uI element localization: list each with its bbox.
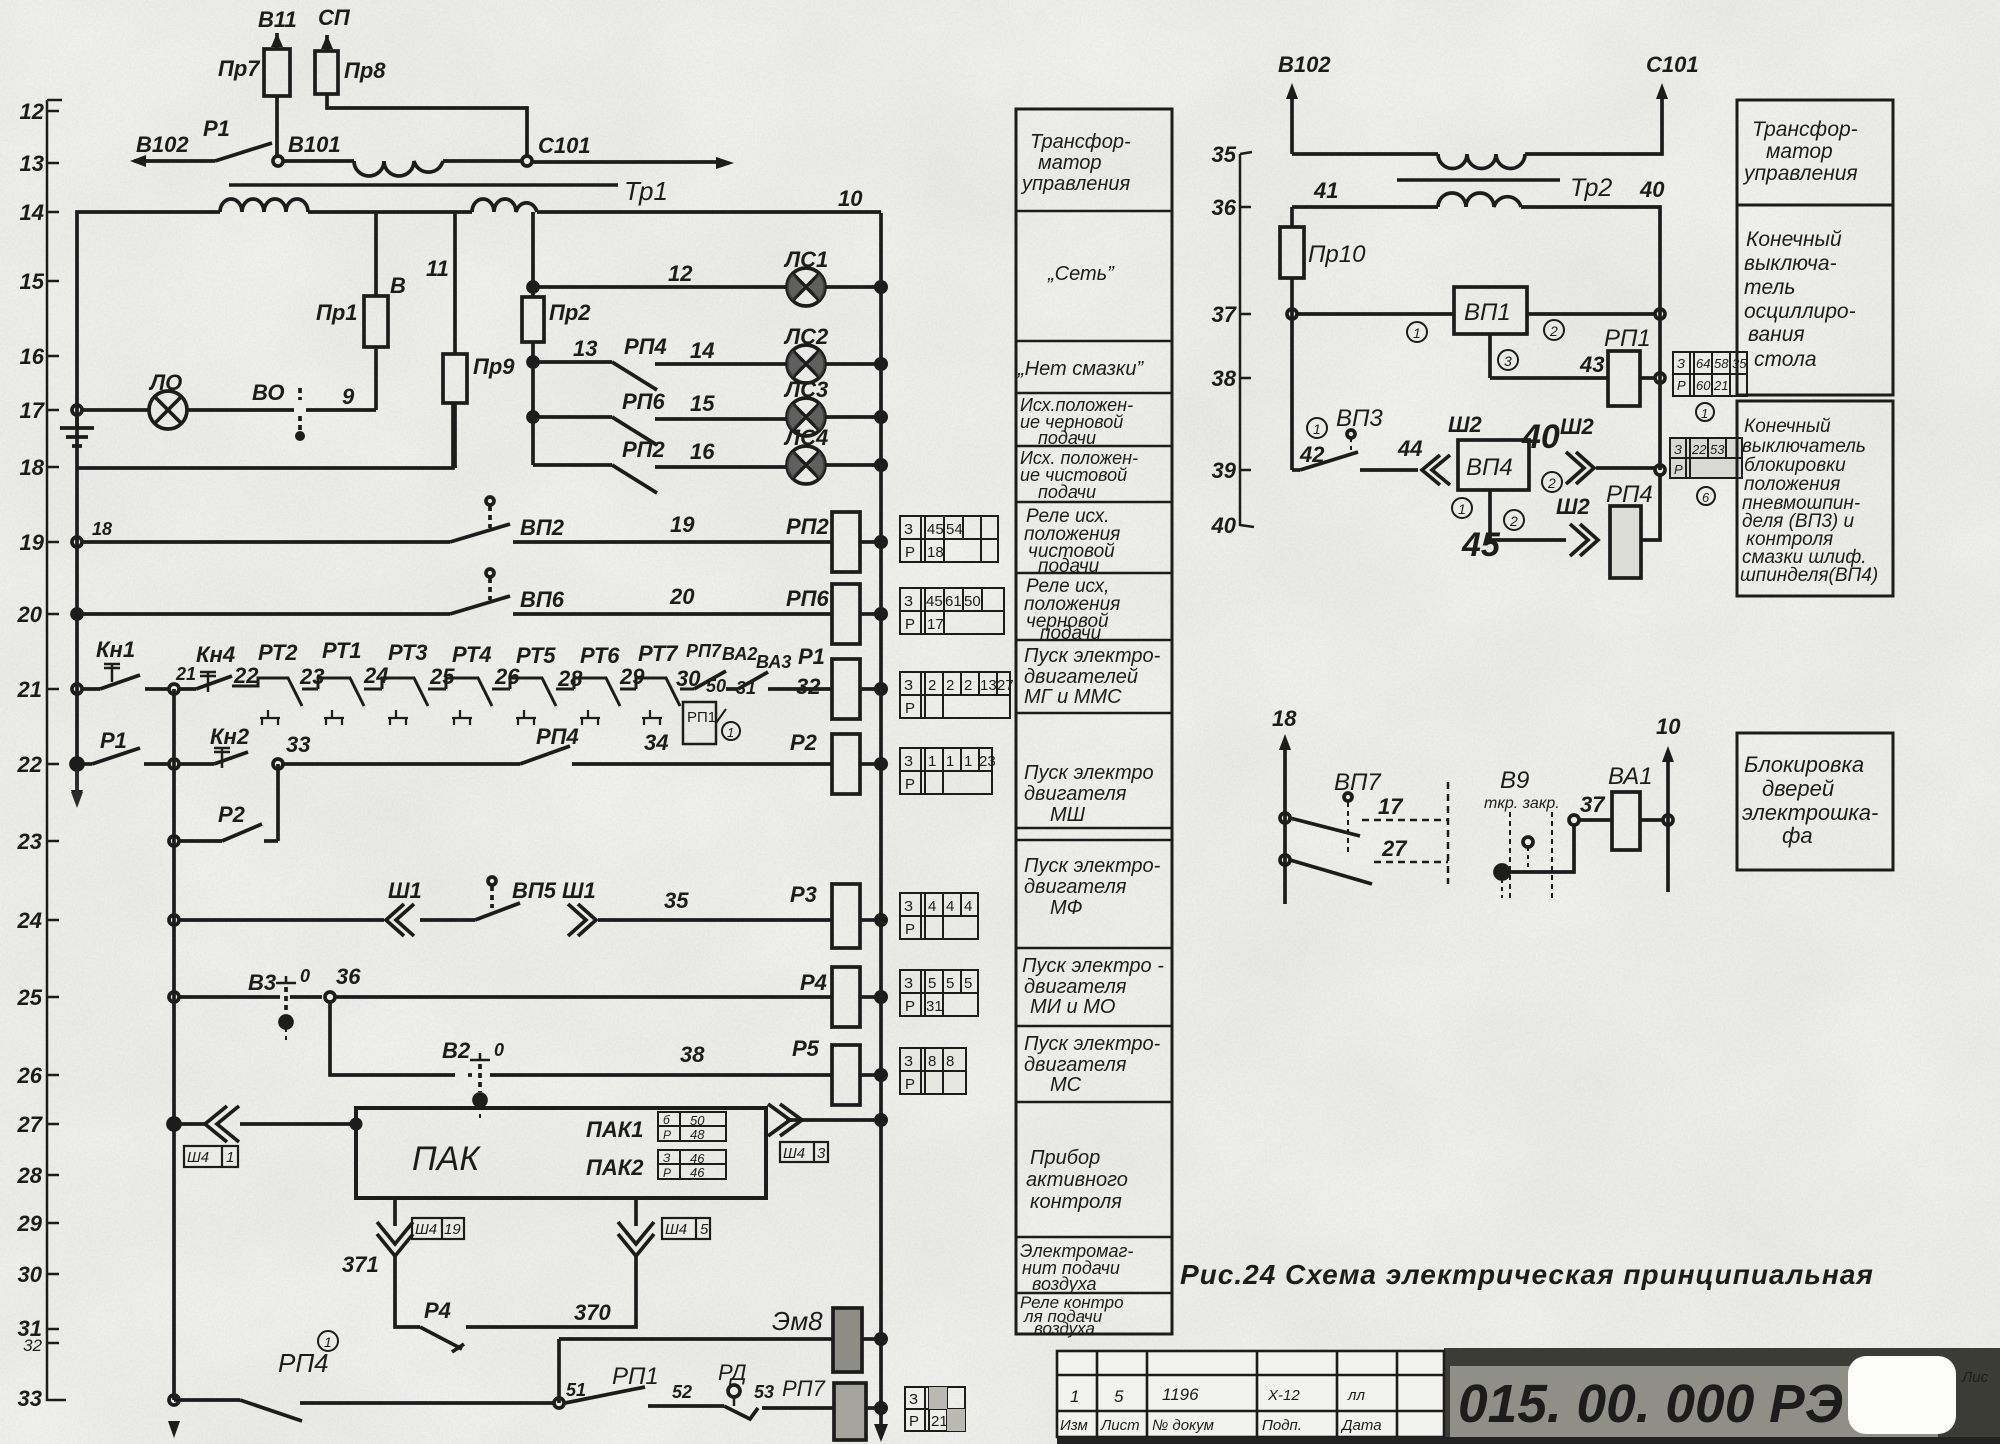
note box Блокировка дверей электрошкафа (1737, 733, 1893, 870)
svg-text:Трансфор-: Трансфор- (1030, 131, 1131, 153)
svg-text:РП6: РП6 (786, 586, 829, 611)
svg-text:В9: В9 (1500, 767, 1529, 794)
svg-text:53: 53 (754, 1382, 774, 1402)
thermal contact РТ4 net 25 (429, 642, 510, 725)
svg-text:двигателей: двигателей (1024, 666, 1138, 688)
svg-text:3: 3 (1504, 353, 1512, 369)
svg-text:положения: положения (1744, 474, 1840, 495)
svg-text:осциллиро-: осциллиро- (1744, 300, 1856, 323)
svg-text:Р4: Р4 (800, 970, 827, 995)
svg-text:15: 15 (690, 391, 715, 416)
svg-text:42: 42 (1299, 442, 1325, 467)
contact РП4 label (278, 1331, 338, 1378)
svg-text:Ш2: Ш2 (1556, 494, 1591, 519)
svg-text:46: 46 (690, 1151, 705, 1166)
fuse Пр1 tap (316, 212, 406, 410)
Тр2 secondary row 36, net 41 (1292, 178, 1438, 207)
svg-text:4: 4 (964, 898, 972, 915)
svg-text:Р: Р (905, 700, 915, 717)
node row 22 bus2 (169, 759, 179, 769)
left bus x77 rows 17-22 (71, 410, 83, 806)
svg-text:Р: Р (905, 776, 915, 793)
svg-text:двигателя: двигателя (1024, 1054, 1127, 1076)
legend row Реле исх. положения черновой подачи (1024, 576, 1120, 644)
wire В101 to Тр1 primary (283, 159, 354, 163)
pushbutton Кн1 (72, 637, 140, 694)
svg-text:вания: вания (1748, 323, 1805, 346)
relay coil Р1 (798, 644, 875, 719)
node В101 (273, 132, 341, 166)
title block stamp dark band (1444, 1348, 2000, 1444)
switch ВП3 (1292, 405, 1383, 470)
contact РП7 net 30 50 (676, 641, 726, 696)
switch В9 откр закр (1484, 767, 1560, 900)
lamp ЛО (82, 370, 187, 429)
svg-text:35: 35 (664, 888, 689, 913)
svg-text:Ш4: Ш4 (665, 1221, 687, 1238)
switch ВП7 upper contact net 17 (1280, 769, 1448, 856)
breaker coil ВА1 (1579, 763, 1662, 850)
svg-text:ВА3: ВА3 (756, 652, 791, 672)
svg-text:лл: лл (1347, 1387, 1365, 1404)
svg-text:4: 4 (946, 898, 954, 915)
svg-text:РТ5: РТ5 (516, 643, 556, 668)
label ПАК2 and table (586, 1150, 726, 1180)
svg-text:„Сеть”: „Сеть” (1047, 263, 1115, 285)
svg-text:Конечный: Конечный (1744, 416, 1831, 437)
svg-text:1: 1 (1413, 325, 1421, 341)
connector Ш2 left (1422, 412, 1483, 485)
svg-text:33: 33 (286, 732, 310, 757)
svg-text:Пуск электро: Пуск электро (1024, 762, 1154, 784)
contact table Р4 (900, 970, 978, 1016)
legend row Реле контроля подачи воздуха (1020, 1293, 1124, 1338)
svg-text:40: 40 (1521, 418, 1560, 456)
lamp ЛС2 (783, 324, 875, 383)
svg-text:21: 21 (1713, 378, 1728, 393)
arrow below node 22 (71, 770, 83, 808)
svg-text:2: 2 (964, 677, 972, 694)
node net 21 (145, 664, 196, 694)
svg-text:Кн1: Кн1 (96, 637, 135, 662)
svg-text:РП1: РП1 (612, 1363, 659, 1390)
svg-text:25: 25 (429, 664, 455, 689)
svg-text:45: 45 (1461, 526, 1501, 564)
wire primary to С101 (443, 159, 522, 163)
svg-text:Ш1: Ш1 (388, 878, 422, 903)
svg-text:ВА2: ВА2 (722, 644, 757, 664)
contact Р4 (420, 1298, 464, 1352)
relay coil Р3 (790, 882, 875, 948)
svg-text:41: 41 (1313, 178, 1338, 203)
svg-text:Р3: Р3 (790, 882, 817, 907)
svg-text:РП2: РП2 (786, 514, 829, 539)
wire row 14 to right bus, net 10 (537, 186, 881, 212)
svg-text:34: 34 (644, 730, 668, 755)
node row 38 right (1655, 314, 1665, 470)
svg-text:контроля: контроля (1030, 1191, 1122, 1213)
switch ВП6 (82, 569, 565, 614)
contact table Р2 (900, 748, 996, 794)
svg-text:РТ3: РТ3 (388, 640, 428, 665)
contact Р1 row 22 (71, 728, 169, 770)
wire net 52 (648, 1382, 724, 1406)
svg-text:64: 64 (1696, 356, 1710, 371)
junction dots right bus (874, 280, 888, 1415)
svg-text:371: 371 (342, 1252, 379, 1277)
fuse Пр9 (443, 354, 515, 468)
svg-text:РП1: РП1 (1604, 325, 1651, 352)
relay coil Р2 (790, 730, 875, 794)
fuse Пр8 (315, 35, 527, 156)
wire node36 drop row 26 (330, 1002, 455, 1075)
wire row 25 to coil Р4 (335, 995, 831, 999)
svg-text:015. 00. 000 РЭ: 015. 00. 000 РЭ (1458, 1374, 1843, 1434)
wire row 18 (77, 403, 453, 468)
svg-text:12: 12 (668, 261, 693, 286)
wire net 371 (342, 1252, 420, 1327)
wire net 20 (513, 584, 831, 614)
svg-text:5: 5 (928, 975, 936, 992)
wire ВП1 pin3 drop (1490, 334, 1518, 378)
time relay box РП1 (683, 702, 740, 744)
Тр2 primary winding (1438, 154, 1525, 169)
svg-text:РП4: РП4 (624, 334, 667, 359)
transformer Тр1 primary winding (354, 161, 443, 176)
transformer Тр1 secondary winding right (472, 199, 537, 212)
svg-text:подачи: подачи (1040, 623, 1102, 644)
svg-text:36: 36 (336, 964, 361, 989)
svg-text:0: 0 (494, 1040, 504, 1060)
svg-text:11: 11 (426, 256, 449, 281)
svg-text:Блокировка: Блокировка (1744, 752, 1864, 777)
svg-text:Ш4: Ш4 (415, 1221, 437, 1238)
svg-text:Пр2: Пр2 (549, 300, 591, 325)
contact table Р1 (900, 672, 1014, 718)
svg-text:воздуха: воздуха (1032, 1274, 1097, 1294)
svg-text:Прибор: Прибор (1030, 1147, 1100, 1169)
svg-text:Пр10: Пр10 (1308, 241, 1366, 268)
left coordinate ruler line (47, 100, 66, 1400)
svg-text:Ш2: Ш2 (1448, 412, 1483, 437)
connector Ш2 lower (1556, 494, 1598, 556)
svg-text:В3: В3 (248, 970, 276, 995)
svg-text:ПАК2: ПАК2 (586, 1155, 644, 1180)
ruler ticks (47, 111, 59, 1343)
svg-text:двигателя: двигателя (1024, 876, 1127, 898)
thermal contact РТ3 net 24 (363, 640, 446, 725)
svg-text:23: 23 (979, 753, 996, 770)
fuse Пр10 (1280, 207, 1366, 470)
svg-text:В11: В11 (258, 7, 297, 32)
svg-text:Подп.: Подп. (1262, 1417, 1302, 1434)
svg-text:подачи: подачи (1038, 428, 1096, 448)
svg-text:З: З (904, 975, 913, 992)
svg-text:29: 29 (17, 1211, 43, 1236)
fuse Пр2 tap (522, 212, 591, 465)
svg-text:36: 36 (1212, 195, 1237, 220)
svg-text:27: 27 (997, 677, 1014, 694)
svg-text:В: В (390, 273, 406, 298)
svg-text:31: 31 (926, 998, 943, 1015)
svg-text:З: З (904, 898, 913, 915)
legend row Электромагнит подачи воздуха (1020, 1241, 1133, 1294)
contact ВА3 net 31 (726, 652, 831, 699)
wire net 44 (1360, 436, 1422, 470)
svg-text:З: З (904, 521, 913, 538)
contact РП4 net 34 (283, 724, 831, 764)
right bus net 10 vertical (879, 213, 883, 1408)
svg-text:ВП4: ВП4 (1466, 454, 1513, 481)
svg-text:Пуск электро-: Пуск электро- (1024, 855, 1161, 877)
contact table РП6 (900, 588, 1004, 634)
svg-text:14: 14 (20, 200, 44, 225)
net С101 riser arrow (1646, 52, 1699, 99)
contact РП2 net 16 (533, 437, 787, 493)
svg-text:В101: В101 (288, 132, 341, 157)
svg-text:1: 1 (964, 753, 972, 770)
transformer Тр1 secondary winding left (220, 199, 308, 212)
net В102 riser (1278, 52, 1331, 154)
svg-text:ПАК1: ПАК1 (586, 1117, 643, 1142)
svg-text:РТ2: РТ2 (258, 640, 298, 665)
svg-text:38: 38 (680, 1042, 705, 1067)
svg-text:5: 5 (700, 1221, 709, 1238)
thermal contact РТ1 net 23 (299, 638, 382, 725)
svg-text:Пр9: Пр9 (473, 354, 515, 379)
svg-text:РП7: РП7 (782, 1376, 826, 1401)
svg-text:З: З (909, 1391, 918, 1408)
node row 27 (168, 1118, 180, 1130)
svg-text:Р: Р (663, 1128, 671, 1142)
svg-text:РТ6: РТ6 (580, 643, 620, 668)
svg-text:Пр7: Пр7 (218, 56, 261, 81)
svg-text:370: 370 (574, 1300, 611, 1325)
svg-text:33: 33 (18, 1386, 42, 1411)
legend row Реле исх. положения чистовой подачи (1024, 506, 1120, 577)
svg-text:шпинделя(ВП4): шпинделя(ВП4) (1740, 565, 1878, 586)
svg-text:16: 16 (690, 439, 715, 464)
svg-text:54: 54 (946, 521, 963, 538)
svg-text:19: 19 (670, 512, 695, 537)
svg-text:61: 61 (945, 593, 962, 610)
pin 2 circled (1544, 320, 1564, 340)
svg-text:Пр1: Пр1 (316, 300, 358, 325)
svg-text:9: 9 (342, 384, 355, 409)
svg-text:З: З (904, 1053, 913, 1070)
svg-text:18: 18 (92, 519, 112, 539)
thermal contact РТ5 net 26 (494, 643, 574, 725)
svg-text:8: 8 (928, 1053, 936, 1070)
svg-text:РП4: РП4 (1606, 481, 1653, 508)
svg-text:10: 10 (838, 186, 863, 211)
svg-text:МГ и ММС: МГ и ММС (1024, 686, 1122, 708)
svg-text:6: 6 (1702, 490, 1710, 505)
wire С101 to right arrow (532, 157, 734, 169)
relay coil Р4 (800, 967, 875, 1027)
contact table РП7 (905, 1387, 965, 1431)
svg-text:электрошка-: электрошка- (1742, 800, 1878, 825)
svg-text:ПАК: ПАК (412, 1140, 481, 1178)
svg-text:1: 1 (1458, 501, 1466, 517)
svg-text:Р: Р (1677, 378, 1686, 393)
svg-text:Р: Р (905, 1076, 915, 1093)
svg-text:Р1: Р1 (100, 728, 127, 753)
svg-text:Р: Р (905, 998, 915, 1015)
svg-text:В102: В102 (136, 132, 189, 157)
svg-text:29: 29 (619, 664, 645, 689)
wire ВП4 pin1 drop net 45 (1452, 490, 1566, 564)
svg-text:Эм8: Эм8 (772, 1306, 823, 1336)
wire net 19 (513, 512, 831, 542)
ruler numbers 12-33 (17, 99, 46, 1411)
title block captions (1060, 1417, 1382, 1434)
svg-text:19: 19 (444, 1221, 461, 1238)
thermal contact РТ2 net 22 (232, 640, 318, 725)
svg-text:„Нет смазки”: „Нет смазки” (1017, 358, 1144, 380)
svg-text:60: 60 (1696, 378, 1711, 393)
svg-text:22: 22 (1691, 442, 1707, 457)
svg-text:ВП6: ВП6 (520, 587, 565, 612)
svg-text:2: 2 (1549, 323, 1558, 339)
wire net 11 vertical (426, 212, 455, 354)
lamp ЛС4 (783, 425, 875, 484)
legend table frame (1016, 109, 1172, 1334)
svg-text:ВА1: ВА1 (1608, 763, 1653, 790)
switch ВП7 lower contact net 27 (1280, 836, 1448, 884)
svg-text:1196: 1196 (1162, 1385, 1199, 1404)
svg-text:ВП5: ВП5 (512, 878, 557, 903)
svg-text:РП4: РП4 (536, 724, 579, 749)
svg-text:4: 4 (928, 898, 936, 915)
svg-text:ВО: ВО (252, 380, 284, 405)
svg-text:З: З (1677, 356, 1685, 371)
note box Конечный выключатель осциллирования стола (1737, 205, 1893, 395)
svg-text:Р: Р (905, 616, 915, 633)
note box Трансформатор управления (1737, 100, 1893, 205)
relay coil РП1 right (1604, 325, 1655, 406)
node net 36 (325, 964, 361, 1002)
svg-text:26: 26 (17, 1063, 43, 1088)
svg-text:21: 21 (175, 664, 196, 684)
svg-text:27: 27 (1381, 836, 1408, 861)
svg-text:РТ7: РТ7 (638, 641, 679, 666)
net В11 arrow (258, 7, 297, 32)
net 18 riser (1272, 706, 1297, 904)
svg-text:Лист: Лист (1100, 1417, 1140, 1434)
svg-text:25: 25 (17, 985, 43, 1010)
svg-text:ткр. закр.: ткр. закр. (1484, 795, 1560, 812)
svg-text:Р5: Р5 (792, 1036, 820, 1061)
pin 1 circled (1407, 322, 1427, 342)
net 10 riser (1656, 714, 1681, 892)
svg-text:Пр8: Пр8 (344, 58, 386, 83)
switch ВП5 (420, 877, 557, 920)
node row 20 on left bus (72, 609, 82, 619)
svg-text:3: 3 (817, 1145, 826, 1162)
limit switch box ВП4 (1458, 440, 1529, 490)
svg-text:2: 2 (1509, 513, 1518, 529)
svg-text:21: 21 (931, 1413, 948, 1430)
svg-text:МС: МС (1050, 1074, 1082, 1096)
svg-text:Р1: Р1 (203, 116, 230, 141)
bus bottom arrow (874, 1414, 888, 1442)
svg-text:ВП2: ВП2 (520, 515, 565, 540)
svg-text:Тр2: Тр2 (1570, 174, 1612, 202)
fuse Пр7 (218, 33, 290, 158)
wire between secondaries (308, 210, 472, 214)
svg-text:Пуск электро-: Пуск электро- (1024, 1033, 1161, 1055)
contact РП4 net 13-14 (528, 334, 787, 390)
svg-text:РТ4: РТ4 (452, 642, 492, 667)
svg-text:№ докум: № докум (1152, 1417, 1214, 1434)
svg-text:24: 24 (17, 908, 42, 933)
legend row Исх. положение черновой подачи (1020, 395, 1133, 448)
switch ВП2 (82, 497, 565, 542)
svg-text:13: 13 (20, 151, 44, 176)
svg-text:52: 52 (672, 1382, 692, 1402)
label ПАК1 and table (586, 1112, 726, 1142)
svg-text:ВП3: ВП3 (1336, 405, 1383, 432)
svg-text:44: 44 (1397, 436, 1422, 461)
svg-text:Трансфор-: Трансфор- (1752, 118, 1858, 141)
svg-text:блокировки: блокировки (1744, 455, 1846, 476)
svg-text:45: 45 (926, 593, 943, 610)
pushbutton Кн4 (179, 642, 235, 692)
svg-text:17: 17 (927, 616, 944, 633)
svg-text:ЛС3: ЛС3 (783, 377, 828, 402)
svg-text:51: 51 (566, 1380, 586, 1400)
svg-text:МШ: МШ (1050, 804, 1086, 826)
contact table РП2 (900, 516, 998, 562)
wire net 370 (466, 1256, 636, 1327)
svg-text:РП6: РП6 (622, 389, 665, 414)
svg-text:45: 45 (927, 521, 944, 538)
svg-text:22: 22 (233, 663, 259, 688)
svg-text:Р2: Р2 (218, 802, 246, 827)
svg-text:МИ и МО: МИ и МО (1030, 996, 1115, 1018)
svg-text:Кн4: Кн4 (196, 642, 235, 667)
svg-text:матор: матор (1038, 152, 1102, 174)
ground symbol (60, 405, 94, 446)
svg-text:46: 46 (690, 1165, 705, 1180)
limit switch box ВП1 (1297, 287, 1655, 334)
contact ВА2 (694, 644, 757, 689)
svg-text:23: 23 (17, 829, 42, 854)
svg-text:14: 14 (690, 338, 714, 363)
svg-text:5: 5 (946, 975, 954, 992)
node net 33 (273, 732, 310, 769)
svg-text:17: 17 (1378, 794, 1404, 819)
svg-text:22: 22 (17, 752, 43, 777)
svg-text:18: 18 (1272, 706, 1297, 731)
svg-text:двигателя: двигателя (1024, 976, 1127, 998)
node net 37 (1569, 792, 1606, 825)
svg-text:2: 2 (946, 677, 954, 694)
thermal contact РТ6 net 28 (557, 643, 636, 725)
svg-text:Р: Р (1674, 462, 1683, 477)
wire secondary to right vertical (1521, 207, 1660, 314)
svg-text:53: 53 (1710, 442, 1725, 457)
svg-text:Х-12: Х-12 (1267, 1387, 1300, 1404)
svg-text:Пуск электро-: Пуск электро- (1024, 645, 1161, 667)
svg-text:32: 32 (23, 1336, 42, 1355)
svg-text:28: 28 (17, 1163, 43, 1188)
svg-text:35: 35 (1212, 142, 1237, 167)
svg-text:РП4: РП4 (278, 1348, 329, 1378)
svg-text:2: 2 (1547, 475, 1556, 491)
svg-text:управления: управления (1020, 173, 1131, 195)
